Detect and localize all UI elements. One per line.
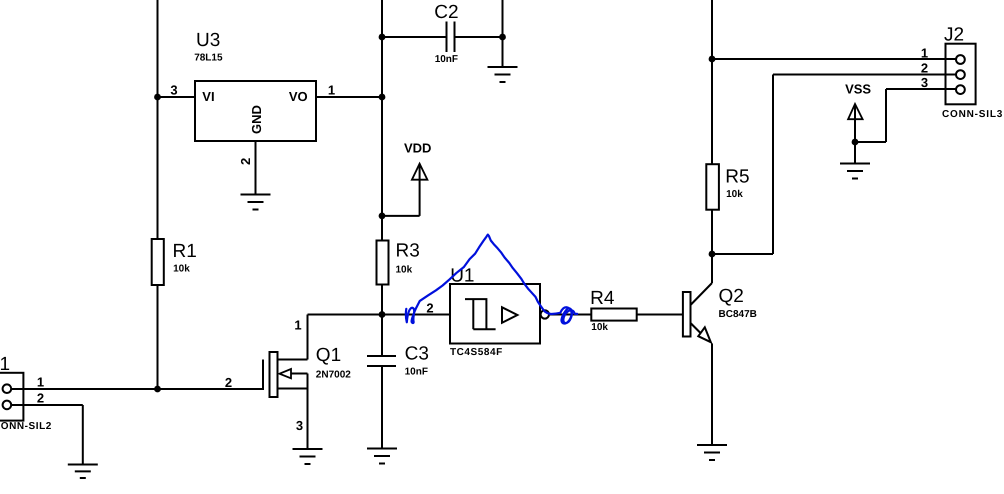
wire Q1 source vertical to ground xyxy=(307,374,309,450)
wire J2 pin2 to R5 node xyxy=(712,253,773,255)
svg-text:2N7002: 2N7002 xyxy=(316,370,351,381)
wire U1 output to Q2 base xyxy=(549,314,683,316)
wire Q2 collector diagonal xyxy=(691,283,713,305)
svg-text:Q1: Q1 xyxy=(316,345,341,366)
wire VDD to rail xyxy=(382,215,420,217)
wire U3 pin2 to ground xyxy=(255,141,257,195)
svg-text:CONN-SIL3: CONN-SIL3 xyxy=(942,109,1003,120)
connector J1 CONN-SIL2 xyxy=(0,373,23,421)
wire U3 pin3 xyxy=(158,96,196,98)
transistor Q2 (BC847B) xyxy=(683,292,691,337)
svg-text:3: 3 xyxy=(170,83,177,98)
svg-text:78L15: 78L15 xyxy=(194,53,223,64)
svg-text:R3: R3 xyxy=(396,241,420,262)
blue annotation scribble xyxy=(406,235,577,324)
wire Q1 drain horizontal xyxy=(278,359,308,361)
wire Q1 drain vertical xyxy=(307,315,309,360)
node Q1 drain / C3 / U1 xyxy=(379,311,386,318)
svg-text:GND: GND xyxy=(249,105,264,134)
svg-text:10k: 10k xyxy=(173,264,190,275)
power symbol VSS xyxy=(848,104,863,119)
wire J2 pin2 horizontal xyxy=(773,74,956,76)
svg-text:3: 3 xyxy=(921,75,928,90)
resistor R1 xyxy=(152,239,164,285)
svg-text:Q2: Q2 xyxy=(719,286,744,307)
U1 buffer triangle xyxy=(502,307,517,323)
node R5 bottom xyxy=(709,251,716,258)
resistor R5 xyxy=(706,164,719,210)
wire J2 pin1 xyxy=(712,58,956,60)
svg-text:1: 1 xyxy=(921,46,928,61)
U1 inverter bubble xyxy=(541,310,549,318)
wire Q1 gate bar xyxy=(262,360,264,391)
wire node to C2 left xyxy=(382,36,446,38)
schmitt inverter U1 box xyxy=(450,284,540,344)
ground J1 pin2 xyxy=(68,465,98,479)
svg-text:2: 2 xyxy=(225,375,232,390)
svg-text:VDD: VDD xyxy=(404,141,431,156)
wire J1 pin2 vertical to ground xyxy=(82,405,84,465)
resistor R3 xyxy=(377,241,389,285)
node U3 VI rail xyxy=(154,94,161,101)
wire J2 pin2 vertical xyxy=(772,75,774,255)
U1 hysteresis glyph xyxy=(465,298,487,300)
wire J1 pin1 to Q1 gate xyxy=(7,388,263,390)
svg-text:2: 2 xyxy=(238,158,253,165)
wire Q2 emitter vertical xyxy=(711,344,713,446)
svg-text:10nF: 10nF xyxy=(405,367,428,378)
ground C2 xyxy=(488,67,518,82)
resistor R4 xyxy=(591,309,636,321)
node VDD rail xyxy=(379,213,386,220)
wire Q1 source arrow lead xyxy=(289,373,308,375)
ground Q2 emitter xyxy=(697,445,727,460)
svg-text:10nF: 10nF xyxy=(435,54,458,65)
wire VDD tail xyxy=(419,164,421,216)
node VSS xyxy=(852,139,859,146)
wire rail mid x=382 lower below C3 xyxy=(381,366,383,449)
svg-text:C2: C2 xyxy=(434,2,458,23)
wire rail mid x=382 upper xyxy=(381,0,383,356)
power symbol VDD xyxy=(412,164,428,180)
regulator U3 box xyxy=(195,81,316,141)
transistor Q1 (2N7002) xyxy=(270,352,278,397)
svg-text:J1: J1 xyxy=(0,354,10,375)
node J2 pin1 rail xyxy=(709,56,716,63)
svg-text:2: 2 xyxy=(426,300,433,315)
wire C2 right xyxy=(456,36,503,38)
svg-text:10k: 10k xyxy=(591,322,608,333)
svg-text:10k: 10k xyxy=(396,264,413,275)
wire J2 pin3 horizontal xyxy=(886,88,956,90)
wire Q1 drain to node xyxy=(308,314,383,316)
svg-text:1: 1 xyxy=(37,374,44,389)
ground U3 pin2 xyxy=(241,195,271,210)
wire rail left x=157.5 xyxy=(157,0,159,389)
wire rail right x=712 upper xyxy=(711,0,713,283)
wire VSS tail to ground xyxy=(854,104,856,164)
ground Q1 source xyxy=(293,449,323,464)
svg-text:C3: C3 xyxy=(405,344,429,365)
node VO rail xyxy=(379,94,386,101)
svg-text:VO: VO xyxy=(289,89,308,104)
svg-text:10k: 10k xyxy=(726,189,743,200)
wire Q1 source horizontal xyxy=(278,388,308,390)
svg-text:R5: R5 xyxy=(725,166,749,187)
svg-text:R1: R1 xyxy=(173,241,197,262)
wire U3 pin1 to node xyxy=(316,96,382,98)
wire J2 pin3 vertical xyxy=(885,89,887,142)
ground VSS xyxy=(840,164,870,179)
ground C3 xyxy=(367,449,397,464)
wire C2 right vertical to ground xyxy=(502,0,504,67)
wire Q2 emitter diagonal xyxy=(691,323,702,334)
svg-text:R4: R4 xyxy=(590,288,615,309)
svg-text:3: 3 xyxy=(296,418,303,433)
node C2 right ground xyxy=(499,34,506,41)
svg-text:1: 1 xyxy=(328,83,335,98)
connector J2 CONN-SIL3 xyxy=(946,44,976,105)
svg-text:BC847B: BC847B xyxy=(719,309,757,320)
node J1 pin1 / R1 / gate xyxy=(154,386,161,393)
svg-text:VI: VI xyxy=(202,89,214,104)
svg-text:TC4S584F: TC4S584F xyxy=(450,347,503,358)
node C2 left xyxy=(379,34,386,41)
wire J2 pin3 to VSS node xyxy=(855,141,886,143)
svg-text:U3: U3 xyxy=(196,30,220,51)
svg-text:J2: J2 xyxy=(944,24,964,45)
svg-text:2: 2 xyxy=(921,61,928,76)
wire node to U1 input xyxy=(382,314,450,316)
wire J1 pin2 horizontal xyxy=(7,404,83,406)
svg-text:1: 1 xyxy=(294,318,301,333)
capacitor C2 xyxy=(446,22,448,53)
svg-text:CONN-SIL2: CONN-SIL2 xyxy=(0,421,52,432)
capacitor C3 xyxy=(367,355,396,357)
svg-text:2: 2 xyxy=(37,390,44,405)
svg-text:VSS: VSS xyxy=(845,82,871,97)
